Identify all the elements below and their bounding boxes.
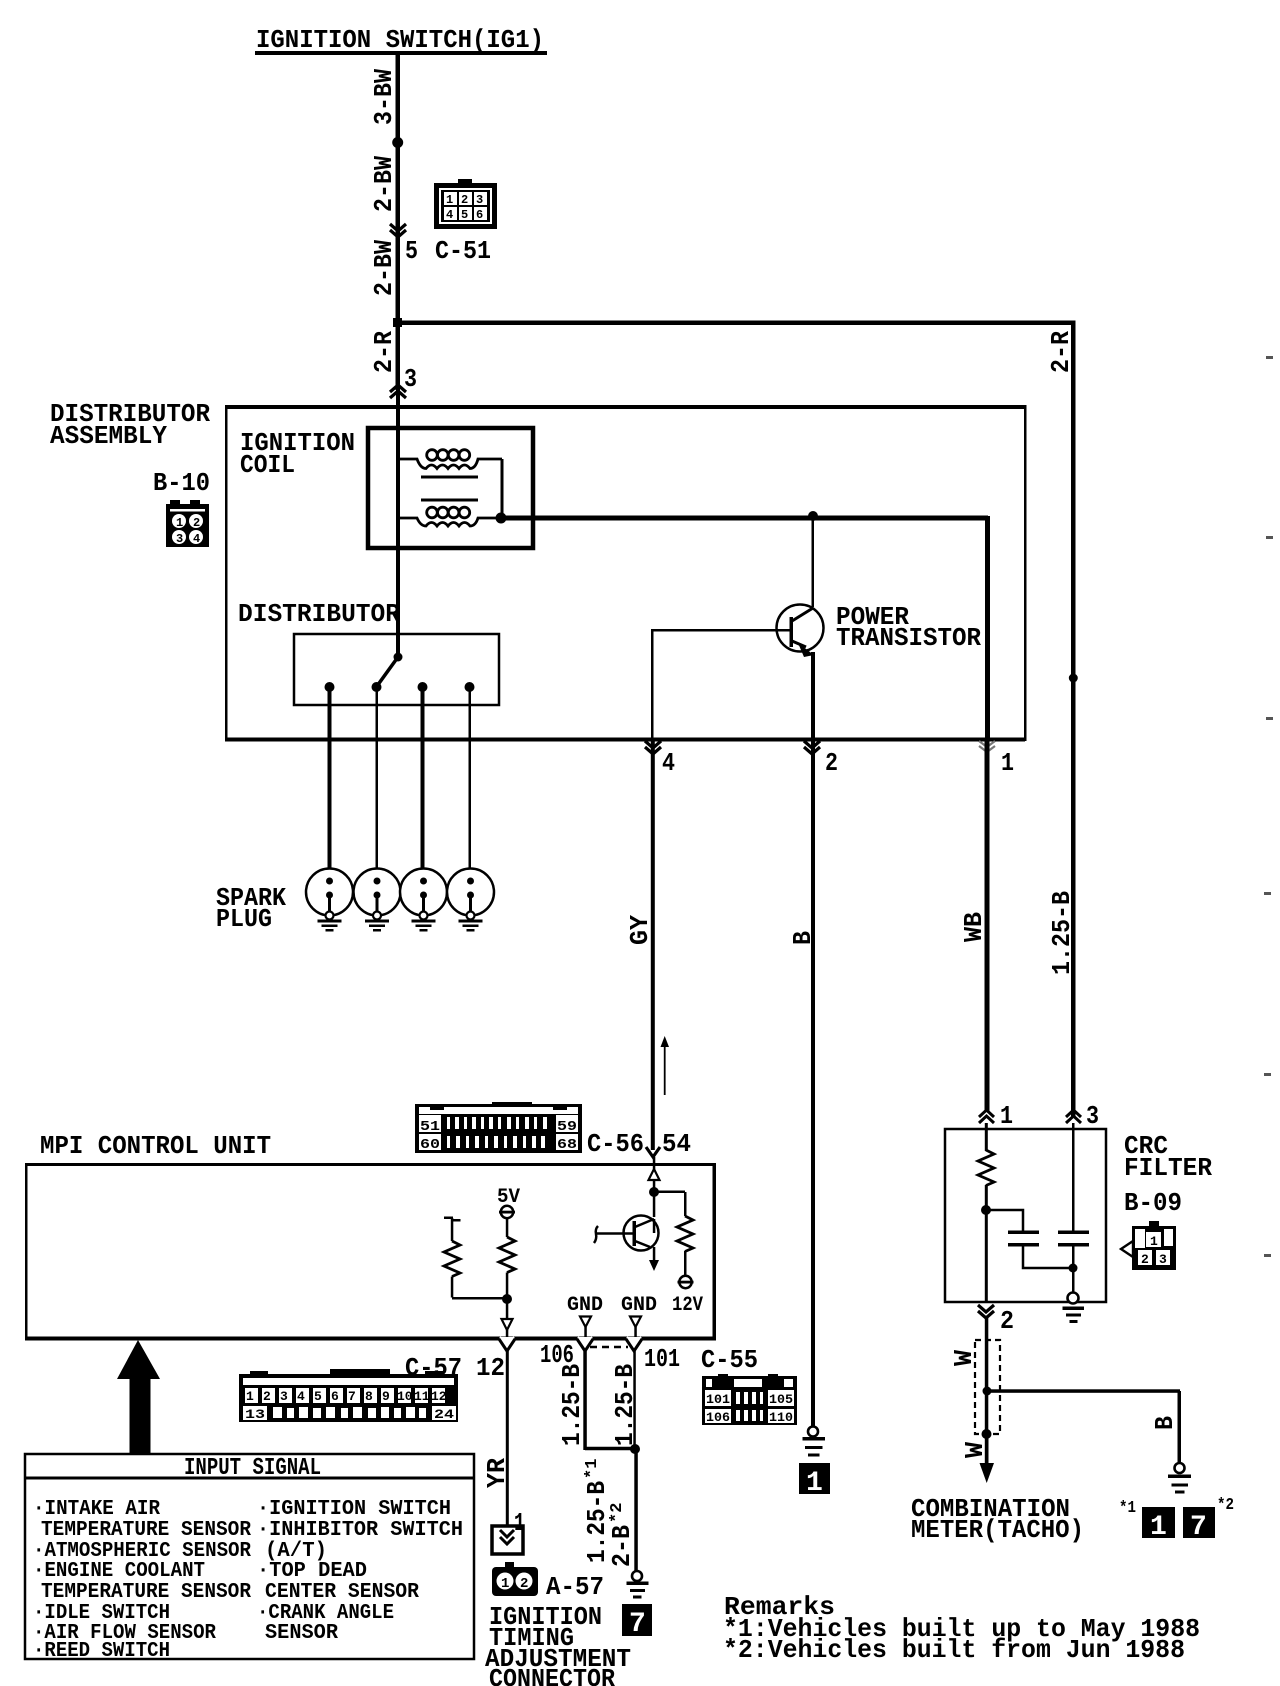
svg-text:60: 60: [420, 1137, 440, 1153]
svg-text:11: 11: [414, 1389, 430, 1404]
svg-text:2: 2: [193, 516, 200, 530]
distributor assembly outer box: [225, 405, 1027, 742]
svg-text:1: 1: [446, 193, 453, 207]
svg-text:8: 8: [365, 1389, 373, 1404]
block number 7 (meter): [1183, 1507, 1215, 1538]
ground circle on CRC box edge: [1068, 1293, 1079, 1304]
svg-text:6: 6: [476, 208, 483, 222]
connector B-09 icon: [1121, 1221, 1176, 1270]
CRC filter chevron pin 3: [1066, 1110, 1081, 1123]
svg-text:54: 54: [662, 1129, 691, 1159]
node junction dot on 2-R/1.25-B wire: [1069, 674, 1078, 683]
wire collector vertical: [812, 516, 815, 607]
svg-text:·IGNITION SWITCH: ·IGNITION SWITCH: [257, 1498, 451, 1521]
resistor MPI left: [444, 1217, 508, 1300]
svg-text:·INTAKE AIR: ·INTAKE AIR: [33, 1498, 160, 1521]
MPI control unit box: [25, 1163, 716, 1341]
wire pin1 WB inside box: [985, 516, 990, 740]
svg-text:*1: *1: [1119, 1499, 1136, 1518]
svg-text:3-BW: 3-BW: [369, 69, 399, 125]
svg-text:B: B: [1150, 1416, 1180, 1430]
block number 1 (meter): [1142, 1507, 1175, 1538]
connector C-55 icon: [702, 1374, 797, 1425]
connector B-10 icon: [166, 500, 209, 547]
svg-text:1.25-B: 1.25-B: [557, 1364, 587, 1446]
wire tacho branch right: [987, 1389, 1180, 1393]
open triangle arrow down GND1: [580, 1317, 591, 1328]
node junction dot MPI collector: [649, 1187, 659, 1197]
svg-text:B-09: B-09: [1124, 1188, 1182, 1218]
svg-text:2: 2: [461, 193, 468, 207]
svg-text:105: 105: [769, 1392, 793, 1407]
svg-text:3: 3: [1159, 1252, 1167, 1267]
svg-text:·TOP DEAD: ·TOP DEAD: [257, 1560, 367, 1583]
svg-text:106: 106: [706, 1410, 730, 1425]
svg-text:2-R: 2-R: [369, 331, 399, 373]
capacitor C1: [1008, 1231, 1039, 1235]
wire direction arrow beside GY: [661, 1036, 670, 1095]
svg-text:3: 3: [280, 1389, 288, 1404]
svg-text:TEMPERATURE SENSOR: TEMPERATURE SENSOR: [41, 1519, 251, 1542]
svg-text:CONNECTOR: CONNECTOR: [489, 1664, 615, 1686]
wire emitter down to pin 2: [811, 652, 815, 740]
dashed harness box: [975, 1340, 1000, 1434]
svg-text:24: 24: [434, 1407, 454, 1422]
arrow to combination meter: [980, 1434, 995, 1483]
svg-text:GND: GND: [621, 1294, 657, 1317]
svg-text:ASSEMBLY: ASSEMBLY: [50, 421, 167, 451]
connector notch pin 54: [646, 1147, 660, 1157]
svg-text:C-55: C-55: [701, 1345, 758, 1375]
node junction dot coil output: [496, 513, 507, 524]
wire MPI base lead with hook: [594, 1226, 634, 1243]
svg-text:1: 1: [1000, 1101, 1013, 1131]
svg-text:METER(TACHO): METER(TACHO): [911, 1515, 1084, 1545]
wire to pin 12: [506, 1299, 509, 1319]
wire to transistor collector: [653, 1180, 656, 1217]
wire spark plug lead 3: [421, 687, 425, 879]
svg-text:6: 6: [331, 1389, 339, 1404]
ground symbol tacho: [1168, 1463, 1191, 1494]
CRC filter chevron pin 1: [979, 1110, 994, 1123]
svg-text:1: 1: [1150, 1234, 1158, 1249]
svg-text:1: 1: [501, 1576, 509, 1592]
ground symbol CRC: [1063, 1307, 1085, 1324]
wire base corner down to pin 4: [651, 629, 654, 740]
connector pass-through pin 4: [645, 741, 661, 754]
distributor box: [294, 634, 499, 705]
svg-text:9: 9: [382, 1389, 390, 1404]
INPUT SIGNAL box: [25, 1454, 474, 1659]
svg-text:WB: WB: [959, 912, 989, 942]
wire YR pin12 down: [506, 1351, 509, 1526]
wire base lead: [652, 629, 790, 632]
node junction dot cap2: [1069, 1264, 1078, 1273]
wire cap2 bottom to ground circle: [1072, 1246, 1075, 1297]
node junction dot CRC: [981, 1205, 991, 1215]
svg-text:MPI CONTROL UNIT: MPI CONTROL UNIT: [40, 1131, 271, 1161]
svg-text:51: 51: [420, 1119, 440, 1135]
svg-text:1.25-B: 1.25-B: [610, 1364, 640, 1446]
wire CRC pin1 through to pin 2: [985, 1210, 988, 1302]
svg-text:59: 59: [557, 1119, 577, 1135]
svg-text:*2: *2: [608, 1503, 627, 1523]
spark plug 1: [306, 869, 353, 932]
svg-text:1: 1: [176, 516, 183, 530]
wire dashed between 106 and 101: [590, 1346, 628, 1349]
svg-text:C-56: C-56: [587, 1129, 644, 1159]
svg-text:7: 7: [348, 1389, 356, 1404]
connector notch pin 12 at box edge: [499, 1337, 515, 1351]
wire 2-R vertical right side: [1071, 321, 1076, 1118]
svg-text:4: 4: [297, 1389, 305, 1404]
wire spark plug lead 4: [469, 687, 472, 879]
connector pass-through arrow pin 3 (up): [390, 385, 406, 398]
wire 54 into MPI: [653, 1157, 656, 1169]
svg-text:·INHIBITOR SWITCH: ·INHIBITOR SWITCH: [257, 1519, 463, 1542]
svg-text:12V: 12V: [672, 1294, 703, 1317]
resistor MPI 5V pull-up: [499, 1218, 515, 1300]
distributor rotor: [394, 653, 403, 662]
MPI transistor Q2: [624, 1216, 660, 1272]
svg-text:2: 2: [263, 1389, 271, 1404]
wire 106 down: [583, 1351, 587, 1450]
wire coil center vertical: [396, 390, 400, 657]
svg-text:*2:Vehicles built from Jun 198: *2:Vehicles built from Jun 1988: [723, 1635, 1185, 1665]
node junction 2-R tee: [393, 318, 402, 327]
label 1.25-B*1: [582, 1459, 612, 1563]
svg-text:1: 1: [1150, 1512, 1167, 1543]
svg-text:4: 4: [662, 748, 675, 778]
wire cap1 bottom to junction2: [1023, 1246, 1073, 1268]
connector A-57 icon: [492, 1562, 538, 1596]
connector notch pin 106: [577, 1337, 593, 1351]
svg-text:GY: GY: [625, 915, 655, 945]
wire joined down to ground: [634, 1449, 638, 1571]
ground symbol B wire: [803, 1427, 826, 1457]
node junction dot 5V divider: [502, 1294, 512, 1304]
svg-text:COIL: COIL: [240, 450, 295, 480]
wire 2-R horizontal to right: [396, 321, 1075, 326]
wire B vertical: [811, 741, 815, 1427]
svg-text:3: 3: [404, 364, 417, 394]
node junction dot 106/101: [630, 1444, 640, 1454]
svg-text:4: 4: [193, 532, 200, 546]
svg-text:7: 7: [1190, 1512, 1207, 1543]
connector C-51 icon: [434, 179, 497, 229]
block number 1 (B ground): [799, 1463, 830, 1499]
svg-text:101: 101: [644, 1344, 680, 1374]
wire primary to junction: [501, 459, 504, 518]
input signal list: [33, 1498, 463, 1663]
node junction dot on IG1 wire: [392, 137, 403, 148]
svg-text:2-BW: 2-BW: [369, 240, 399, 296]
svg-text:10: 10: [397, 1389, 413, 1404]
svg-text:5: 5: [314, 1389, 322, 1404]
spark plug 3: [400, 869, 447, 932]
svg-text:INPUT SIGNAL: INPUT SIGNAL: [184, 1455, 321, 1482]
wire CRC pin 3 down: [1072, 1123, 1075, 1231]
CRC filter box: [945, 1129, 1106, 1302]
svg-text:2: 2: [1000, 1306, 1014, 1336]
svg-text:5: 5: [405, 236, 418, 266]
resistor MPI right (12V pull-up): [655, 1191, 694, 1289]
resistor CRC: [978, 1150, 994, 1186]
open triangle arrow down (pin 12): [502, 1319, 513, 1330]
svg-text:TRANSISTOR: TRANSISTOR: [836, 623, 981, 653]
connector pass-through pin 1 (faded): [979, 741, 995, 752]
ignition coil secondary winding: [400, 507, 501, 526]
svg-text:IGNITION SWITCH(IG1): IGNITION SWITCH(IG1): [256, 25, 544, 55]
svg-text:B: B: [788, 931, 818, 945]
svg-text:12: 12: [431, 1389, 447, 1404]
ignition coil primary winding: [400, 450, 502, 469]
svg-text:2: 2: [520, 1576, 528, 1592]
connector C-57 icon: [239, 1369, 458, 1422]
svg-text:3: 3: [1086, 1101, 1099, 1131]
ignition coil box: [368, 428, 533, 548]
svg-text:DISTRIBUTOR: DISTRIBUTOR: [238, 599, 400, 629]
svg-text:5: 5: [461, 208, 468, 222]
svg-text:SENSOR: SENSOR: [265, 1622, 338, 1645]
svg-text:4: 4: [446, 208, 453, 222]
svg-text:2-B: 2-B: [607, 1525, 637, 1567]
svg-text:3: 3: [476, 193, 483, 207]
svg-text:3: 3: [176, 532, 183, 546]
svg-text:2: 2: [1141, 1252, 1149, 1267]
wire tacho branch down: [1178, 1391, 1182, 1463]
svg-text:*1: *1: [583, 1459, 602, 1479]
connector pass-through pin 2: [804, 741, 820, 754]
spark plug 4: [447, 869, 494, 932]
svg-text:13: 13: [245, 1407, 265, 1422]
svg-text:FILTER: FILTER: [1124, 1153, 1212, 1183]
wire spark plug lead 2: [376, 687, 379, 879]
svg-text:GND: GND: [567, 1294, 603, 1317]
svg-text:PLUG: PLUG: [216, 904, 272, 934]
wire junction to cap1: [986, 1210, 1023, 1231]
svg-text:7: 7: [629, 1609, 646, 1640]
block number 7 (timing gnd): [622, 1604, 652, 1636]
power terminal 5V: [501, 1206, 513, 1218]
open triangle arrow up (54): [649, 1169, 660, 1180]
svg-text:1.25-B: 1.25-B: [1047, 891, 1077, 975]
wire IG1 vertical 3-BW/2-BW: [396, 55, 401, 390]
svg-text:68: 68: [557, 1137, 577, 1153]
wire CRC pin1 down: [985, 1123, 988, 1151]
svg-text:W: W: [949, 1350, 979, 1366]
svg-text:CENTER SENSOR: CENTER SENSOR: [265, 1581, 419, 1604]
chevron pin 2 below CRC: [978, 1305, 994, 1318]
svg-text:1: 1: [1001, 748, 1014, 778]
connector C-51 pass-through arrow pin 5: [390, 224, 406, 237]
wire GY vertical: [651, 741, 655, 1150]
scan artifacts right edge: [1264, 356, 1273, 1257]
svg-text:2-BW: 2-BW: [369, 156, 399, 212]
connector C-56 icon: [415, 1102, 582, 1153]
svg-text:·ENGINE COOLANT: ·ENGINE COOLANT: [33, 1560, 205, 1583]
wire WB vertical: [985, 741, 990, 1111]
ground symbol (106/101): [627, 1571, 649, 1599]
spark plug 2: [354, 869, 401, 932]
ignition timing adjustment connector box: [492, 1526, 523, 1554]
svg-text:YR: YR: [482, 1458, 512, 1488]
wire pin2 down: [985, 1318, 989, 1466]
svg-text:*2: *2: [1217, 1496, 1234, 1515]
svg-text:2: 2: [825, 748, 838, 778]
node junction dot collector: [808, 511, 818, 521]
wire spark plug lead 1: [328, 687, 332, 879]
svg-text:2-R: 2-R: [1046, 331, 1076, 373]
connector notch pin 101: [626, 1337, 642, 1351]
svg-text:A-57: A-57: [546, 1572, 604, 1602]
label 2-B*2: [607, 1503, 637, 1567]
svg-text:·REED SWITCH: ·REED SWITCH: [33, 1640, 170, 1663]
svg-text:C-51: C-51: [435, 236, 491, 266]
svg-text:1: 1: [246, 1389, 254, 1404]
input signal thick arrow: [117, 1340, 160, 1454]
wire coil output to right: [501, 516, 988, 521]
svg-text:1: 1: [806, 1468, 823, 1499]
wire 106 elbow to 101: [585, 1447, 635, 1451]
svg-text:B-10: B-10: [153, 468, 210, 498]
power transistor Q1: [777, 605, 824, 658]
capacitor C2: [1058, 1231, 1089, 1235]
open triangle arrow down GND2: [630, 1317, 641, 1328]
svg-text:101: 101: [706, 1392, 730, 1407]
svg-text:TEMPERATURE SENSOR: TEMPERATURE SENSOR: [41, 1581, 251, 1604]
coil core lines: [421, 476, 478, 479]
wire 101 down: [633, 1351, 636, 1450]
node junction dot tacho: [983, 1387, 992, 1396]
node junction dot dashed box bottom: [982, 1429, 992, 1439]
node IGNITION SWITCH (IG1) title: [255, 25, 547, 55]
svg-text:12: 12: [476, 1353, 505, 1383]
node contact dots: [325, 682, 335, 692]
svg-text:110: 110: [769, 1410, 793, 1425]
